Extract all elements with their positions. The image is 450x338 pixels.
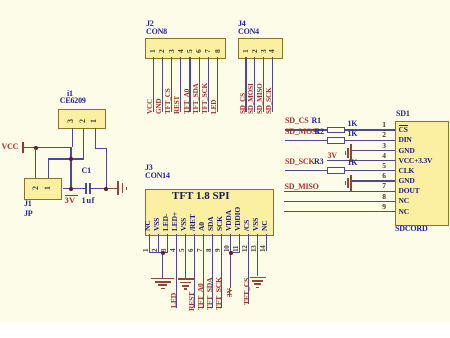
net label TFT_SCK under J2	[202, 83, 209, 114]
wire SD1 pin1 SD_CS	[285, 129, 395, 130]
wire J2 pin 1	[153, 57, 154, 112]
regulator i1 body	[58, 109, 106, 129]
wire J2 pin 4	[180, 57, 181, 112]
resistor R3 value 1K	[348, 159, 358, 167]
J3 pin name SCK	[216, 216, 224, 231]
wire i1 pin1 drop to rail	[106, 148, 107, 190]
wire J1 pin2 riser	[35, 148, 36, 179]
wire J3 pin12 TFT_CS	[248, 234, 249, 304]
net label VCC under J2	[147, 99, 154, 114]
J2 pin number 5	[186, 50, 194, 54]
wire J3 pins10-11 bus	[230, 252, 240, 253]
IC SD1 body	[395, 121, 449, 226]
J2 pin number 2	[158, 50, 166, 54]
J3 pin name NC	[261, 221, 269, 231]
net label TFT_A0 under J2	[184, 89, 191, 114]
net label TFT_CS under J3	[243, 278, 251, 305]
resistor R1 value 1K	[348, 120, 358, 128]
connector J2 value CON8	[146, 28, 167, 36]
J3 pin number 10	[224, 245, 231, 252]
ground right of 3V (pin3) bar3	[345, 151, 347, 155]
J3 pin name /RET	[189, 214, 197, 231]
wire J4 pin 4	[272, 57, 273, 112]
J3 pin name NC	[144, 221, 152, 231]
resistor R2 body	[327, 137, 346, 144]
J3 pin name LED-	[162, 214, 170, 231]
net label SD_SCK under J4	[266, 88, 273, 114]
net label 3V	[65, 196, 76, 205]
wire J3 pin14 stub	[266, 234, 267, 252]
net label TFT_SDA under J2	[193, 83, 200, 114]
wire J3 pin2 stub	[158, 234, 159, 253]
wire SD1 pin6 GND	[351, 180, 395, 181]
J3 pin number 7	[197, 248, 204, 251]
ground g2 under J3 pin5 bar1	[178, 278, 194, 280]
capacitor C1 value 1uf	[82, 196, 96, 205]
IC SD1 designator	[396, 110, 410, 118]
junction rail left	[69, 187, 73, 191]
wire J2 pin 3	[171, 57, 172, 112]
SD1 pin name CS	[399, 126, 408, 134]
connector J4 value CON4	[238, 28, 259, 36]
SD1 pin number 3	[376, 142, 386, 150]
wire SD1 pin2 SD_MOSI	[285, 140, 395, 141]
connector J2 body	[145, 38, 226, 60]
connector J1 value JP	[24, 210, 33, 218]
ground above SD_MISO (pin6) bar3	[345, 181, 347, 185]
connector J2 designator	[146, 20, 154, 28]
net label GND under J2	[156, 99, 163, 114]
ground symbol near C1 bar2	[122, 183, 124, 192]
ground right of 3V (pin3) bar2	[347, 148, 349, 158]
J2 pin number 1	[149, 50, 157, 54]
J1 pin number 2	[32, 186, 40, 190]
J3 pin name VSS	[180, 218, 188, 231]
J3 pin name VDDIO	[234, 207, 242, 231]
SD1 pin name DOUT	[399, 187, 420, 195]
ground g3 under J3 pin13 bar3	[254, 283, 261, 285]
J2 pin number 6	[195, 50, 203, 54]
J3 pin number 9	[215, 248, 222, 251]
SD1 pin number 4	[376, 152, 386, 160]
wire J2 pin 8	[217, 57, 218, 112]
wire J2 pin 7	[208, 57, 209, 112]
ground g1 under J3 pins1-3 bar4	[161, 288, 165, 290]
SD1 pin1 CS overline	[399, 124, 408, 127]
wire i1 pin1 jog right	[95, 148, 107, 149]
J3 pin name SDA	[207, 217, 215, 231]
SD1 pin name NC	[399, 208, 409, 216]
wire SD1 pin4 3V	[327, 160, 396, 161]
SD1 pin number 8	[376, 193, 386, 201]
J3 pin number 14	[260, 245, 267, 252]
net label SD_MOSI	[285, 128, 319, 136]
J3 pin name /CS	[243, 220, 251, 231]
wire i1 pin1 stub down	[95, 128, 96, 149]
wire J2 pin 6	[199, 57, 200, 112]
wire J1 pin1 riser	[48, 158, 49, 178]
net label 3V under J3	[226, 288, 234, 297]
net label LED under J3	[170, 293, 178, 308]
resistor R3 body	[327, 167, 346, 174]
decorative bottom strip	[0, 320, 450, 338]
junction pin3/J1 net	[69, 157, 73, 161]
capacitor C1 left plate	[85, 183, 87, 194]
wire J3 pin11 stub	[239, 234, 240, 253]
wire VCC horizontal	[24, 147, 72, 148]
wire J4 pin 2	[254, 57, 255, 112]
junction rail right	[104, 187, 108, 191]
wire J3 pin1 stub	[149, 234, 150, 253]
resistor R3 designator	[314, 158, 323, 166]
J1 pin number 1	[44, 186, 52, 190]
ground g3 under J3 pin13 bar2	[252, 280, 264, 282]
J3 pin number 11	[233, 245, 240, 251]
J3 pin name VSS	[252, 218, 260, 231]
J2 pin number 4	[177, 50, 185, 54]
J3 title TFT 1.8 SPI	[172, 191, 230, 202]
junction J3 ground1	[161, 251, 165, 255]
ground g3 under J3 pin13 bar4	[256, 287, 259, 289]
wire J3 pin3 stub	[167, 234, 168, 253]
ground above SD_MISO (pin6) bar2	[347, 178, 349, 188]
SD1 pin name NC	[399, 197, 409, 205]
J2 pin number 3	[168, 50, 176, 54]
net label SD_CS under J4	[240, 93, 247, 114]
resistor R2 designator	[315, 128, 324, 136]
ground g1 under J3 pins1-3 bar2	[155, 281, 171, 283]
J3 pin number 8	[206, 248, 213, 251]
ground lead near C1	[107, 188, 117, 189]
wire SD1 pin9 NC	[284, 211, 395, 212]
SD1 pin name VCC+3.3V	[399, 157, 433, 165]
junction J3 3V	[229, 251, 233, 255]
SD1 pin name GND	[399, 147, 415, 155]
wire SD1 pin5 SD_SCK	[285, 170, 395, 171]
J3 pin name A0	[198, 222, 206, 231]
resistor R2 value 1K	[348, 130, 358, 138]
J3 pin number 13	[251, 245, 258, 252]
net label SD_MISO	[285, 183, 319, 191]
J3 pin number 6	[188, 248, 195, 251]
net label SD_CS	[285, 117, 308, 125]
connector J4 body	[238, 38, 283, 60]
net label 3V overbar	[65, 195, 78, 196]
SD1 pin number 7	[376, 182, 386, 190]
J3 pin number 4	[170, 248, 177, 251]
SD1 pin number 9	[376, 203, 386, 211]
SD1 pin name DIN	[399, 136, 412, 144]
net label SD_SCK	[285, 158, 314, 166]
wire SD1 pin8 NC	[284, 201, 395, 202]
J3 pin name VSS	[153, 218, 161, 231]
wire J3 pin6 REST	[194, 234, 195, 308]
ground g2 under J3 pin5 bar4	[184, 288, 187, 290]
SD1 pin number 5	[376, 162, 386, 170]
net label REST under J3	[188, 291, 196, 310]
wire 3V rail right segment	[91, 188, 107, 189]
connector J3 value CON14	[145, 172, 170, 180]
SD1 pin name CLK	[399, 167, 415, 175]
net label 3V right side	[328, 152, 337, 160]
i1 pin number 1	[90, 119, 98, 123]
SD1 pin number 6	[376, 172, 386, 180]
wire J3 pins1-3 bus	[149, 252, 168, 253]
resistor R1 body	[327, 127, 346, 134]
J3 pin number 1	[143, 248, 150, 251]
net label LED under J2	[211, 100, 218, 114]
connector J3 body	[145, 189, 274, 236]
wire J3 pin4 LED	[176, 234, 177, 308]
capacitor C1 designator	[82, 167, 91, 175]
wire J3 pin10 3V	[230, 234, 231, 288]
capacitor C1 right plate	[89, 183, 91, 194]
i1 pin number 2	[79, 119, 87, 123]
net label TFT_A0 under J3	[197, 283, 205, 310]
J4 pin number 1	[242, 50, 250, 54]
wire i1 pin2 stub	[83, 128, 84, 159]
J2 pin number 8	[214, 50, 222, 54]
SD1 pin number 1	[376, 121, 386, 129]
wire J2 pin 5	[189, 57, 190, 112]
wire J3 pin13 to ground3	[257, 234, 258, 277]
regulator i1 designator	[67, 90, 73, 98]
ground above SD_MISO (pin6) bar1	[350, 175, 352, 192]
connector J1 designator	[24, 200, 32, 208]
wire ground1 lead	[162, 253, 163, 278]
net label TFT_SDA under J3	[206, 277, 214, 309]
J4 pin number 2	[251, 50, 259, 54]
wire J4 pin 1	[245, 57, 246, 112]
i1 pin number 3	[67, 119, 75, 123]
SD1 pin number 2	[376, 131, 386, 139]
IC SD1 value SDCORD	[395, 225, 428, 233]
J2 pin number 7	[204, 50, 212, 54]
wire J2 pin 2	[162, 57, 163, 112]
J4 pin number 4	[268, 50, 276, 54]
wire J3 pin7 TFT_A0	[203, 234, 204, 308]
net label SD_MISO under J4	[257, 83, 264, 114]
ground g2 under J3 pin5 bar3	[182, 285, 189, 287]
connector J4 designator	[238, 20, 246, 28]
ground g2 under J3 pin5 bar2	[180, 282, 192, 284]
net label SD_MOSI under J4	[248, 83, 255, 114]
J3 pin number 12	[242, 245, 249, 252]
resistor R1 designator	[312, 117, 321, 125]
wire vertical VCC to 3V rail	[70, 147, 71, 189]
ground symbol near C1 bar3	[126, 187, 127, 191]
ground right of 3V (pin3) bar1	[350, 144, 352, 161]
J3 pin name LED+	[171, 212, 179, 231]
connector J1 body	[24, 178, 62, 200]
wire J3 pin5 to ground2	[185, 234, 186, 278]
wire J1 pin1 horizontal	[48, 158, 84, 159]
wire i1 pin3 stub	[72, 128, 73, 147]
net label TFT_SCK under J3	[215, 277, 223, 310]
junction VCC/J1	[34, 146, 38, 150]
J3 pin number 5	[179, 248, 186, 251]
power port VCC tick	[22, 142, 23, 153]
regulator i1 value CE6209	[60, 97, 86, 105]
net label 3V under J3 overbar	[229, 288, 230, 297]
J4 pin number 3	[260, 50, 268, 54]
power port VCC label	[2, 143, 19, 151]
wire J3 pin9 TFT_SCK	[221, 234, 222, 308]
wire SD1 pin7 SD_MISO	[284, 191, 395, 192]
wire J3 pin8 TFT_SDA	[212, 234, 213, 308]
net label TFT_CS under J2	[165, 88, 172, 114]
connector J3 designator	[145, 164, 153, 172]
ground g1 under J3 pins1-3 bar3	[158, 284, 168, 286]
wire 3V rail left segment	[63, 188, 87, 189]
J3 pin number 2	[152, 248, 159, 251]
J3 pin name VDDA	[225, 210, 233, 231]
ground symbol near C1 bar1	[117, 181, 119, 195]
net label REST under J2	[174, 96, 181, 114]
ground g3 under J3 pin13 bar1	[250, 277, 266, 279]
wire J4 pin 3	[263, 57, 264, 112]
wire SD1 pin3 GND	[351, 150, 395, 151]
SD1 pin name GND	[399, 177, 415, 185]
ground g1 under J3 pins1-3 bar1	[151, 278, 174, 280]
J3 pin number 3	[161, 248, 168, 251]
